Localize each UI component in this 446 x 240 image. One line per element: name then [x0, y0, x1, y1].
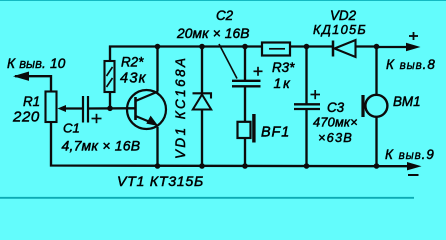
wire R2 bottom: [109, 92, 111, 109]
svg-text:220: 220: [12, 109, 40, 126]
buzzer BF1: [238, 114, 256, 143]
wire BM1 top: [375, 47, 377, 96]
svg-text:470мк×: 470мк×: [313, 115, 358, 130]
svg-text:R1: R1: [23, 94, 40, 109]
wire C2 to BF1: [244, 87, 246, 123]
svg-text:4,7мк × 16В: 4,7мк × 16В: [62, 138, 141, 154]
node VD1 bottom junction: [199, 163, 205, 169]
wire C3 top: [305, 47, 307, 104]
wire BF1 bottom: [244, 138, 246, 166]
svg-text:С3: С3: [327, 100, 345, 115]
node collector junction: [155, 44, 161, 50]
svg-text:VD1 КС168А: VD1 КС168А: [173, 56, 188, 159]
wire R1 wiper to C1: [62, 107, 83, 109]
minus sign pin 9: [408, 174, 419, 176]
resistor R3: [262, 43, 290, 56]
svg-text:1к: 1к: [274, 75, 292, 91]
wire BM1 bottom: [375, 117, 377, 166]
wire VD1 bottom: [201, 110, 203, 167]
wire to pin 8 arrow: [377, 46, 410, 48]
svg-text:К выв. 10: К выв. 10: [7, 56, 66, 71]
node BM1 bottom junction: [374, 163, 380, 169]
capacitor C3: [294, 90, 320, 109]
node C3 bottom junction: [304, 163, 310, 169]
svg-text:К выв.9: К выв.9: [385, 147, 435, 162]
svg-text:ВМ1: ВМ1: [393, 94, 421, 109]
diode VD2: [333, 40, 356, 57]
plus sign pin 8: [409, 32, 418, 40]
node base junction: [107, 106, 113, 112]
wire top rail right (VD2 to BM1 tap): [355, 45, 378, 47]
arrow to pin 10: [13, 72, 29, 81]
arrow to pin 9: [407, 162, 422, 170]
wire R2 top: [109, 46, 111, 62]
svg-text:VT1 КТ315Б: VT1 КТ315Б: [117, 174, 204, 190]
microphone BM1: [361, 95, 387, 117]
wire pin10 arrow line and down to R1: [15, 76, 51, 91]
arrow to pin 8: [406, 43, 421, 51]
transistor VT1: [127, 90, 166, 129]
node BF1 bottom junction: [242, 163, 248, 169]
leader line C2 label: [219, 44, 237, 79]
wire collector up: [156, 47, 158, 92]
svg-text:С1: С1: [63, 120, 80, 135]
wire C1 to base: [89, 107, 135, 110]
wire C3 bottom: [305, 110, 307, 167]
capacitor C1: [83, 96, 102, 123]
node BM1 top junction: [374, 44, 380, 50]
svg-text:BF1: BF1: [261, 124, 290, 140]
svg-text:R3*: R3*: [272, 60, 295, 75]
node emitter junction: [155, 163, 161, 169]
svg-text:К выв.8: К выв.8: [386, 57, 436, 72]
wire C2 top: [244, 47, 246, 81]
svg-text:×63В: ×63В: [318, 130, 353, 145]
svg-text:С2: С2: [216, 8, 234, 23]
zener diode VD1: [193, 93, 212, 109]
wire R1 bottom to bottom rail: [51, 122, 410, 166]
svg-text:20мк × 16В: 20мк × 16В: [176, 26, 250, 41]
wire VD1 top: [201, 47, 203, 94]
resistor R1 (potentiometer 220): [46, 92, 67, 123]
wire top rail middle (R3 to VD2): [290, 45, 332, 47]
resistor R2: [105, 61, 115, 92]
wire emitter down: [156, 127, 158, 166]
wire top rail left (R2 top to R3): [109, 45, 261, 47]
node C2 top junction: [242, 44, 248, 50]
svg-text:VD2: VD2: [330, 8, 357, 23]
node C3 top junction: [304, 44, 310, 50]
svg-text:R2*: R2*: [121, 54, 144, 69]
svg-text:КД105Б: КД105Б: [313, 22, 367, 37]
svg-text:43к: 43к: [120, 71, 147, 87]
node VD1 top junction: [199, 44, 205, 50]
capacitor C2: [232, 67, 263, 87]
